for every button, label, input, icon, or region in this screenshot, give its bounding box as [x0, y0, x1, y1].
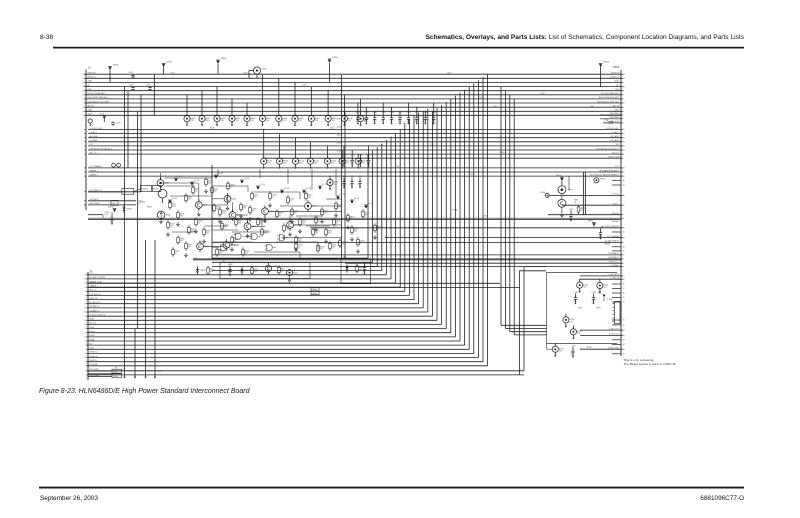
svg-text:JU660: JU660	[312, 289, 317, 291]
wire net IGN	[86, 90, 621, 92]
test point TP625	[168, 198, 178, 203]
svg-text:470: 470	[350, 164, 353, 166]
test point circle TP607	[88, 119, 92, 126]
svg-text:C532: C532	[358, 155, 363, 157]
svg-text:TP601: TP601	[113, 65, 120, 67]
svg-text:R658: R658	[153, 189, 157, 191]
ground	[231, 247, 234, 251]
connector J1 pin tick	[86, 311, 88, 313]
svg-text:470: 470	[294, 213, 297, 215]
capacitor C527	[415, 107, 420, 125]
svg-text:GND AC: GND AC	[611, 220, 619, 223]
ground	[203, 239, 206, 243]
svg-text:TP700: TP700	[586, 347, 592, 349]
wire net GND AC	[88, 218, 621, 220]
wire net GND bus	[88, 217, 621, 219]
wire net band Y287.5	[88, 287, 520, 289]
svg-text:VOL/SQL (AC): VOL/SQL (AC)	[90, 127, 103, 130]
resistor/capacitor C627	[216, 247, 224, 256]
svg-text:SPKR ILLU: SPKR ILLU	[609, 262, 620, 264]
transient suppressor E505	[259, 74, 271, 126]
transient suppressor E705	[552, 343, 564, 357]
connector P502 pin stub 14	[612, 344, 621, 346]
ground	[315, 227, 318, 231]
capacitor C531	[350, 150, 355, 167]
box bottom-mid B1	[220, 263, 310, 279]
connector J1 pin tick	[86, 299, 88, 301]
svg-text:10: 10	[84, 337, 86, 339]
wire net band Y259.9	[193, 259, 621, 261]
connector P700 pin 4	[613, 313, 615, 315]
svg-text:41: 41	[623, 320, 625, 322]
svg-text:JU653: JU653	[113, 371, 118, 373]
transistor Q608	[287, 219, 294, 231]
svg-text:September 26, 2003: September 26, 2003	[40, 495, 98, 502]
transistor Q602	[229, 209, 236, 221]
resistor/capacitor R639	[188, 225, 196, 234]
resistor/capacitor R648	[257, 217, 265, 226]
connector P502 pin stub 4	[612, 246, 621, 248]
wire	[230, 244, 239, 246]
resistor R602	[117, 163, 121, 168]
svg-text:IGN: IGN	[615, 89, 619, 91]
svg-text:0.1: 0.1	[224, 227, 227, 229]
svg-text:GND: GND	[90, 319, 95, 321]
wire net BUS- (staircase row 17, riser)	[88, 328, 446, 330]
svg-text:47K: 47K	[286, 229, 290, 231]
connector P502 pin tick	[621, 94, 623, 96]
svg-text:PTT/RADIO: PTT/RADIO	[608, 252, 619, 255]
wire net IL MIC HI	[580, 278, 621, 280]
svg-text:SPARE 2: SPARE 2	[90, 173, 99, 176]
ground	[321, 219, 324, 223]
svg-text:C529: C529	[432, 112, 437, 114]
resistor/capacitor R670	[305, 191, 313, 200]
ground	[299, 229, 302, 233]
wire net SPKR LO	[86, 77, 621, 79]
wire net HOOK/CLEAR (AC)	[86, 94, 621, 96]
connector J1 body	[87, 272, 89, 380]
resistor/capacitor R674	[185, 241, 193, 250]
connector J1 pin tick	[86, 282, 88, 284]
svg-text:24: 24	[84, 279, 86, 281]
wire	[212, 198, 224, 200]
resistor/capacitor C640	[231, 235, 239, 244]
svg-text:VOL/SQL (AC): VOL/SQL (AC)	[606, 127, 619, 130]
svg-text:JU654: JU654	[113, 376, 118, 378]
connector P502 pin tick	[621, 129, 623, 131]
resistor/capacitor C625	[362, 209, 370, 218]
svg-text:0.1: 0.1	[569, 218, 572, 220]
connector P502 pin tick	[621, 157, 623, 159]
wire net SPKR HI (staircase row 24, riser)	[88, 357, 478, 359]
gate U601	[233, 233, 244, 239]
svg-text:DET AUD/CTRL (AC/DC): DET AUD/CTRL (AC/DC)	[90, 147, 113, 150]
svg-text:J2: J2	[88, 67, 91, 70]
svg-text:24: 24	[82, 78, 84, 80]
svg-text:P502: P502	[613, 65, 620, 69]
transient suppressor E5010	[341, 95, 353, 127]
resistor/capacitor R624	[213, 203, 221, 212]
svg-text:12: 12	[82, 107, 84, 109]
transient suppressor E502	[214, 87, 226, 127]
svg-text:23: 23	[84, 283, 86, 285]
capacitor C502	[129, 85, 135, 91]
wire net IL MIC +5V	[580, 334, 621, 336]
svg-text:HOOK/CLEAR (AC): HOOK/CLEAR (AC)	[601, 92, 619, 95]
svg-text:47K: 47K	[243, 208, 247, 210]
resistor/capacitor C630	[195, 217, 203, 226]
connector J1 pin tick	[86, 328, 88, 330]
connector P502 pin tick	[621, 194, 623, 196]
svg-text:25V: 25V	[282, 120, 286, 122]
connector P502 pin tick	[621, 329, 623, 331]
connector J2 pin tick	[84, 141, 86, 143]
svg-text:C512: C512	[395, 166, 400, 168]
svg-text:JU52: JU52	[337, 135, 341, 137]
wire net VOL/SQL (AC)	[88, 129, 621, 131]
diode CR651	[241, 267, 250, 275]
svg-text:25V: 25V	[331, 163, 335, 165]
wire drop D	[140, 95, 142, 192]
svg-text:R510: R510	[605, 120, 609, 122]
wire E705 row	[546, 344, 548, 350]
transient suppressor E520	[327, 176, 339, 190]
svg-text:PTT ENABLE: PTT ENABLE	[90, 165, 103, 168]
svg-text:C508: C508	[540, 93, 545, 95]
svg-text:JU50: JU50	[337, 119, 341, 121]
ground	[195, 229, 198, 233]
connector P502 pin stub 6	[612, 283, 621, 285]
svg-text:Q601: Q601	[232, 198, 237, 200]
wire net bus (staircase row 2, riser)	[212, 266, 377, 268]
svg-text:470: 470	[423, 121, 426, 123]
ground G1	[160, 219, 163, 223]
resistor/capacitor C632	[227, 181, 235, 190]
transistor Q600	[195, 199, 202, 211]
svg-text:JU652: JU652	[126, 370, 133, 372]
connector J1 pin tick	[86, 332, 88, 334]
svg-text:C503: C503	[146, 85, 151, 87]
capacitor C529	[432, 103, 437, 125]
svg-text:470: 470	[338, 207, 341, 209]
svg-text:FLT AUD: FLT AUD	[611, 139, 620, 142]
diode D500	[249, 67, 267, 78]
svg-text:4.7K: 4.7K	[324, 213, 328, 215]
resistor/capacitor R628	[261, 227, 269, 236]
svg-text:16: 16	[84, 312, 86, 314]
wire	[165, 177, 212, 179]
connector P502 pin tick	[621, 153, 623, 155]
svg-text:25V: 25V	[604, 287, 608, 289]
svg-text:BUS-/EMGCY DET (AC): BUS-/EMGCY DET (AC)	[597, 100, 619, 103]
svg-text:25V: 25V	[251, 120, 255, 122]
ground	[291, 219, 294, 223]
svg-text:22: 22	[82, 82, 84, 84]
svg-text:C527: C527	[415, 112, 420, 114]
wire net PTT (staircase row 4, riser)	[88, 274, 386, 276]
connector P502 pin tick	[621, 258, 623, 260]
svg-text:B+ 5V: B+ 5V	[172, 198, 178, 200]
wire net SPARE 1 E/S (staircase row 6, riser)	[88, 282, 396, 284]
svg-text:C524: C524	[390, 112, 395, 114]
connector P502 pin stub 1	[612, 184, 621, 186]
wire	[212, 241, 252, 243]
svg-text:B+ 9V: B+ 9V	[368, 203, 374, 205]
svg-text:0.1: 0.1	[234, 241, 237, 243]
svg-text:470: 470	[342, 185, 345, 187]
wire net GND (staircase row 15, riser)	[88, 319, 437, 321]
resistor/capacitor C637	[335, 201, 343, 210]
ground	[226, 206, 229, 210]
gate U603	[265, 245, 276, 251]
svg-text:C531: C531	[350, 155, 355, 157]
transient suppressor E503	[229, 99, 241, 127]
resistor/capacitor C635	[291, 207, 299, 216]
svg-text:JU656: JU656	[452, 210, 457, 212]
svg-text:470: 470	[342, 244, 345, 246]
connector P502 pin tick	[621, 102, 623, 104]
wire net TX AUD IO (staircase row 13, riser)	[88, 311, 428, 313]
capacitor C526	[406, 103, 411, 125]
svg-text:B+ 5V: B+ 5V	[284, 188, 290, 190]
test point TP621	[240, 178, 250, 183]
svg-text:JU6: JU6	[114, 367, 117, 369]
test point TP605	[599, 62, 610, 87]
svg-text:C528: C528	[423, 112, 428, 114]
svg-text:B+ 5V: B+ 5V	[244, 178, 250, 180]
connector J2 pin tick	[84, 204, 86, 206]
ground	[335, 213, 338, 217]
svg-text:Q650: Q650	[273, 266, 278, 268]
capacitor C521	[364, 107, 369, 125]
svg-text:25V: 25V	[570, 321, 574, 323]
connector J1 pin tick	[86, 278, 88, 280]
svg-text:SPARE 1 E/S: SPARE 1 E/S	[90, 280, 103, 283]
svg-text:R507: R507	[470, 174, 475, 176]
wire	[293, 224, 341, 226]
transient suppressor E651	[287, 270, 298, 282]
svg-text:10K: 10K	[170, 226, 174, 228]
svg-text:R660: R660	[123, 192, 127, 194]
svg-text:C703: C703	[571, 345, 576, 347]
svg-text:GND: GND	[88, 110, 93, 112]
test point TP630	[108, 207, 116, 213]
wire net 2WD	[600, 114, 621, 116]
svg-text:6881096C77-O: 6881096C77-O	[700, 495, 744, 502]
test point TP620	[556, 175, 564, 186]
capacitor C537	[358, 176, 363, 189]
resistor/capacitor R673	[169, 200, 177, 209]
svg-text:25V: 25V	[332, 120, 336, 122]
connector P502 pin tick	[621, 266, 623, 268]
wire drop A	[123, 87, 125, 330]
svg-text:1: 1	[85, 377, 86, 379]
resistor/capacitor C641	[329, 241, 337, 250]
connector J2 pin tick	[84, 94, 86, 96]
svg-text:25V: 25V	[236, 120, 240, 122]
svg-text:B+ 5V: B+ 5V	[194, 180, 200, 182]
transient suppressor E5011	[358, 99, 370, 127]
svg-text:22K: 22K	[302, 223, 306, 225]
capacitor C692	[599, 227, 604, 240]
connector P502 pin tick	[621, 145, 623, 147]
connector J1 pin tick	[86, 352, 88, 354]
wire net MIC LO (staircase row 8, riser)	[88, 290, 405, 292]
wire net bus (staircase row 3, riser)	[212, 270, 382, 272]
svg-text:25V: 25V	[314, 163, 318, 165]
resistor/capacitor R637	[374, 223, 382, 232]
wire net BUSY (staircase row 19, riser)	[88, 336, 455, 338]
connector P502 pin tick	[621, 241, 623, 243]
wire	[311, 169, 313, 190]
transistor Q601	[224, 193, 231, 205]
wire	[317, 242, 319, 249]
connector P502 pin tick	[621, 133, 623, 135]
svg-text:470: 470	[571, 354, 574, 356]
ground	[177, 222, 180, 226]
svg-text:RX AUD IO: RX AUD IO	[90, 305, 101, 308]
svg-text:25V: 25V	[299, 163, 303, 165]
svg-text:FLT AUD: FLT AUD	[90, 139, 99, 142]
wire	[198, 190, 200, 202]
svg-text:C504: C504	[170, 72, 175, 74]
resistor/capacitor R672	[347, 213, 355, 222]
connector P502 pin tick	[621, 122, 623, 124]
ground	[269, 203, 272, 207]
svg-text:470: 470	[350, 185, 353, 187]
wire net 3WD	[600, 118, 621, 120]
svg-text:470: 470	[398, 121, 401, 123]
connector P502 pin tick	[621, 348, 623, 350]
svg-text:B+ 9V: B+ 9V	[260, 184, 266, 186]
wire net SPARE 2	[88, 175, 621, 177]
connector J2 pin tick	[84, 110, 86, 112]
wire	[212, 218, 262, 220]
wire net BUS-/EMGCY DET (AC)	[86, 102, 621, 104]
svg-text:C521: C521	[364, 112, 369, 114]
connector J1 pin tick	[86, 274, 88, 276]
resistor R601	[112, 163, 116, 168]
wire riser 4 to interconnect	[513, 99, 515, 335]
svg-text:C501: C501	[129, 72, 134, 74]
connector J2 pin tick	[84, 98, 86, 100]
svg-text:TP604: TP604	[332, 57, 339, 59]
connector P502 pin tick	[621, 98, 623, 100]
connector P502 pin tick	[621, 73, 623, 75]
wire net BUS+ (staircase row 18, riser)	[88, 332, 451, 334]
svg-text:10K: 10K	[188, 247, 192, 249]
svg-text:R705: R705	[578, 308, 583, 310]
test point TP612	[256, 184, 266, 189]
wire net PTT/RADIO	[212, 254, 621, 256]
svg-text:2WB AC: 2WB AC	[604, 242, 611, 245]
capacitor C651	[363, 262, 368, 275]
transient suppressor E701	[577, 279, 589, 293]
connector J2 pin tick	[84, 90, 86, 92]
svg-text:IL MIC HI: IL MIC HI	[611, 278, 620, 280]
test point TP602	[162, 62, 173, 74]
connector J2 pin tick	[84, 73, 86, 75]
connector J1 pin tick	[86, 295, 88, 297]
svg-text:HOOK/CLEAR (AC): HOOK/CLEAR (AC)	[88, 92, 106, 95]
svg-text:470: 470	[363, 271, 366, 273]
svg-text:ICS GND: ICS GND	[90, 364, 99, 366]
resistor/capacitor C622	[287, 195, 295, 204]
wire	[198, 183, 200, 190]
svg-text:CR651: CR651	[244, 270, 250, 272]
svg-text:21: 21	[84, 291, 86, 293]
connector J1 pin tick	[86, 323, 88, 325]
svg-text:SW B+: SW B+	[613, 204, 620, 206]
transient suppressor E501	[199, 91, 211, 127]
wire	[172, 231, 196, 233]
connector P502 pin tick	[621, 106, 623, 108]
wire net IL MIC AUD	[580, 275, 621, 277]
svg-text:C537: C537	[358, 176, 363, 178]
resistor/capacitor C626	[172, 247, 180, 256]
svg-text:470: 470	[254, 197, 257, 199]
wire net IL MIC GND	[580, 348, 621, 350]
svg-text:B+ 9V: B+ 9V	[218, 173, 224, 175]
svg-text:TP602: TP602	[166, 62, 173, 64]
wire net SPKR COM	[262, 157, 621, 159]
svg-text:BUS+/PWR GND (AC): BUS+/PWR GND (AC)	[599, 96, 620, 99]
wire	[232, 231, 270, 233]
svg-text:1K: 1K	[279, 215, 282, 217]
wire net BUS GND long	[88, 370, 524, 372]
connector P502 pin tick	[621, 275, 623, 277]
svg-text:C506: C506	[302, 85, 307, 87]
wire	[212, 185, 248, 187]
header rule	[53, 47, 744, 49]
connector P502 pin stub 11	[612, 319, 621, 321]
connector P502 pin tick	[621, 227, 623, 229]
svg-text:JP2: JP2	[343, 257, 346, 259]
svg-text:26: 26	[82, 74, 84, 76]
connector P502 pin stub 15	[612, 353, 621, 355]
resistor/capacitor C636	[315, 215, 323, 224]
current source Q605	[157, 211, 170, 219]
connector P502 pin stub 10	[612, 301, 621, 303]
transistor Q609	[305, 200, 312, 212]
IC U601	[111, 200, 118, 205]
svg-text:GND: GND	[615, 81, 620, 83]
wire net AUX TB	[88, 204, 136, 206]
svg-text:470: 470	[381, 121, 384, 123]
connector J2 pin tick	[84, 137, 86, 139]
svg-text:470: 470	[364, 121, 367, 123]
wire net FLT AUD IO (staircase row 11, riser)	[88, 303, 419, 305]
connector P502 pin stub 2	[612, 231, 621, 233]
resistor R651	[251, 266, 259, 275]
wire net PTT ENABLE	[88, 167, 621, 169]
ground	[185, 253, 188, 257]
svg-text:MIC LO: MIC LO	[90, 152, 97, 154]
svg-text:IL MIC +5V: IL MIC +5V	[609, 334, 620, 336]
capacitor C701	[574, 292, 579, 305]
svg-text:SPKR LO: SPKR LO	[90, 352, 99, 354]
transient suppressor E504	[244, 103, 256, 127]
wire net RX AUD IO (staircase row 12, riser)	[88, 307, 423, 309]
wire	[268, 210, 341, 212]
svg-text:470: 470	[373, 121, 376, 123]
svg-text:C614: C614	[110, 212, 115, 214]
ground	[197, 212, 200, 216]
svg-text:25V: 25V	[346, 163, 350, 165]
svg-text:47K: 47K	[210, 271, 214, 273]
ground	[357, 249, 360, 253]
